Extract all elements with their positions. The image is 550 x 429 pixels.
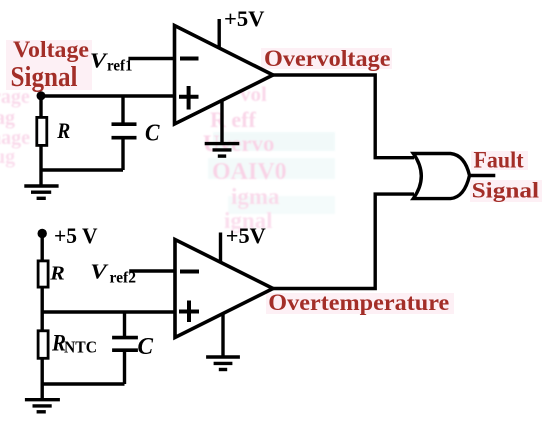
label halo: Overvoltage (261, 48, 392, 69)
wire: OR gate output (470, 174, 496, 177)
wire: U2 ground stem (221, 314, 224, 357)
capacitor C (top circuit) (112, 124, 137, 138)
ground (U2) (206, 357, 240, 370)
resistor RNTC (38, 331, 48, 359)
wire: R bottom to junction (bottom circuit) (41, 287, 44, 314)
node A: voltage signal input node (37, 91, 46, 100)
svg-text:Fault: Fault (474, 148, 524, 174)
wire: RNTC bottom to ground (bottom circuit) (41, 358, 44, 400)
wire: junction to comparator U2 + input (42, 310, 175, 313)
wire: U1 ground stem (220, 101, 223, 144)
wire: +5V supply to U1 (217, 19, 220, 49)
svg-text:C: C (138, 333, 154, 360)
op-amp U2 (overtemperature comparator) (175, 240, 273, 338)
wire: capacitor C top lead (bottom circuit) (123, 312, 126, 338)
ground (below RNTC) (25, 400, 60, 412)
resistor R (top circuit) (37, 117, 47, 145)
wire: U2 output to OR gate bottom input (273, 194, 414, 288)
wire: voltage-signal node to comparator U1 + input (41, 94, 175, 97)
ground (U1) (205, 144, 240, 157)
svg-text:Signal: Signal (472, 178, 539, 203)
plus sign U2 (179, 301, 199, 323)
svg-text:+5 V: +5 V (54, 223, 98, 248)
svg-text:ag: ag (0, 107, 15, 129)
wire: R-C bottom connection (top circuit) (41, 168, 123, 171)
ground (below R, top circuit) (24, 186, 58, 198)
svg-text:V: V (90, 48, 108, 72)
svg-text:Overtemperature: Overtemperature (268, 290, 449, 315)
label halo: Voltage Signal (6, 40, 92, 90)
svg-text:Signal: Signal (11, 62, 78, 93)
svg-text:R: R (56, 118, 70, 143)
wire: Vref2 to comparator U2 - input (129, 269, 175, 272)
OR gate (413, 154, 469, 199)
label halo: Overtemperature (266, 293, 454, 314)
svg-text:+5V: +5V (224, 6, 265, 31)
node B: +5V supply node (bottom circuit) (38, 229, 47, 238)
svg-text:R: R (49, 263, 65, 285)
wire: capacitor C bottom lead (top circuit) (121, 138, 124, 170)
svg-text:V: V (90, 260, 108, 284)
svg-text:NTC: NTC (64, 338, 97, 357)
svg-text:R eff: R eff (210, 107, 256, 132)
plus sign U1 (179, 86, 199, 110)
wire: capacitor C bottom lead (bottom circuit) (123, 350, 126, 384)
svg-text:Overvoltage: Overvoltage (264, 46, 391, 72)
label halo: Signal (fault) (470, 180, 542, 202)
wire: +5V supply to U2 (219, 233, 222, 263)
svg-text:Voltage: Voltage (13, 37, 89, 62)
wire: junction down to RNTC (41, 312, 44, 332)
minus sign U1 (180, 57, 199, 61)
resistor R (bottom circuit) (38, 261, 48, 287)
wire: Vref1 to comparator U1 - input (128, 57, 174, 60)
wire: node A down to resistor R (top circuit) (39, 96, 42, 118)
svg-text:igma: igma (231, 184, 280, 209)
wire: +5V node down to resistor R (bottom circuit) (41, 234, 44, 262)
svg-text:C: C (145, 120, 160, 147)
label halo: Fault (471, 151, 528, 170)
svg-text:OAIV0: OAIV0 (212, 159, 287, 185)
svg-text:ug: ug (0, 146, 15, 168)
minus sign U2 (180, 270, 199, 274)
capacitor C (bottom circuit) (112, 338, 138, 351)
svg-text:+5V: +5V (226, 223, 266, 248)
wire: U1 output to OR gate top input (273, 75, 414, 158)
wire: RNTC-C bottom connection (42, 382, 124, 385)
wire: resistor R bottom to ground (top circuit) (39, 145, 42, 186)
op-amp U1 (overvoltage comparator) (175, 26, 274, 125)
wire: capacitor C top lead (top circuit) (121, 96, 124, 124)
